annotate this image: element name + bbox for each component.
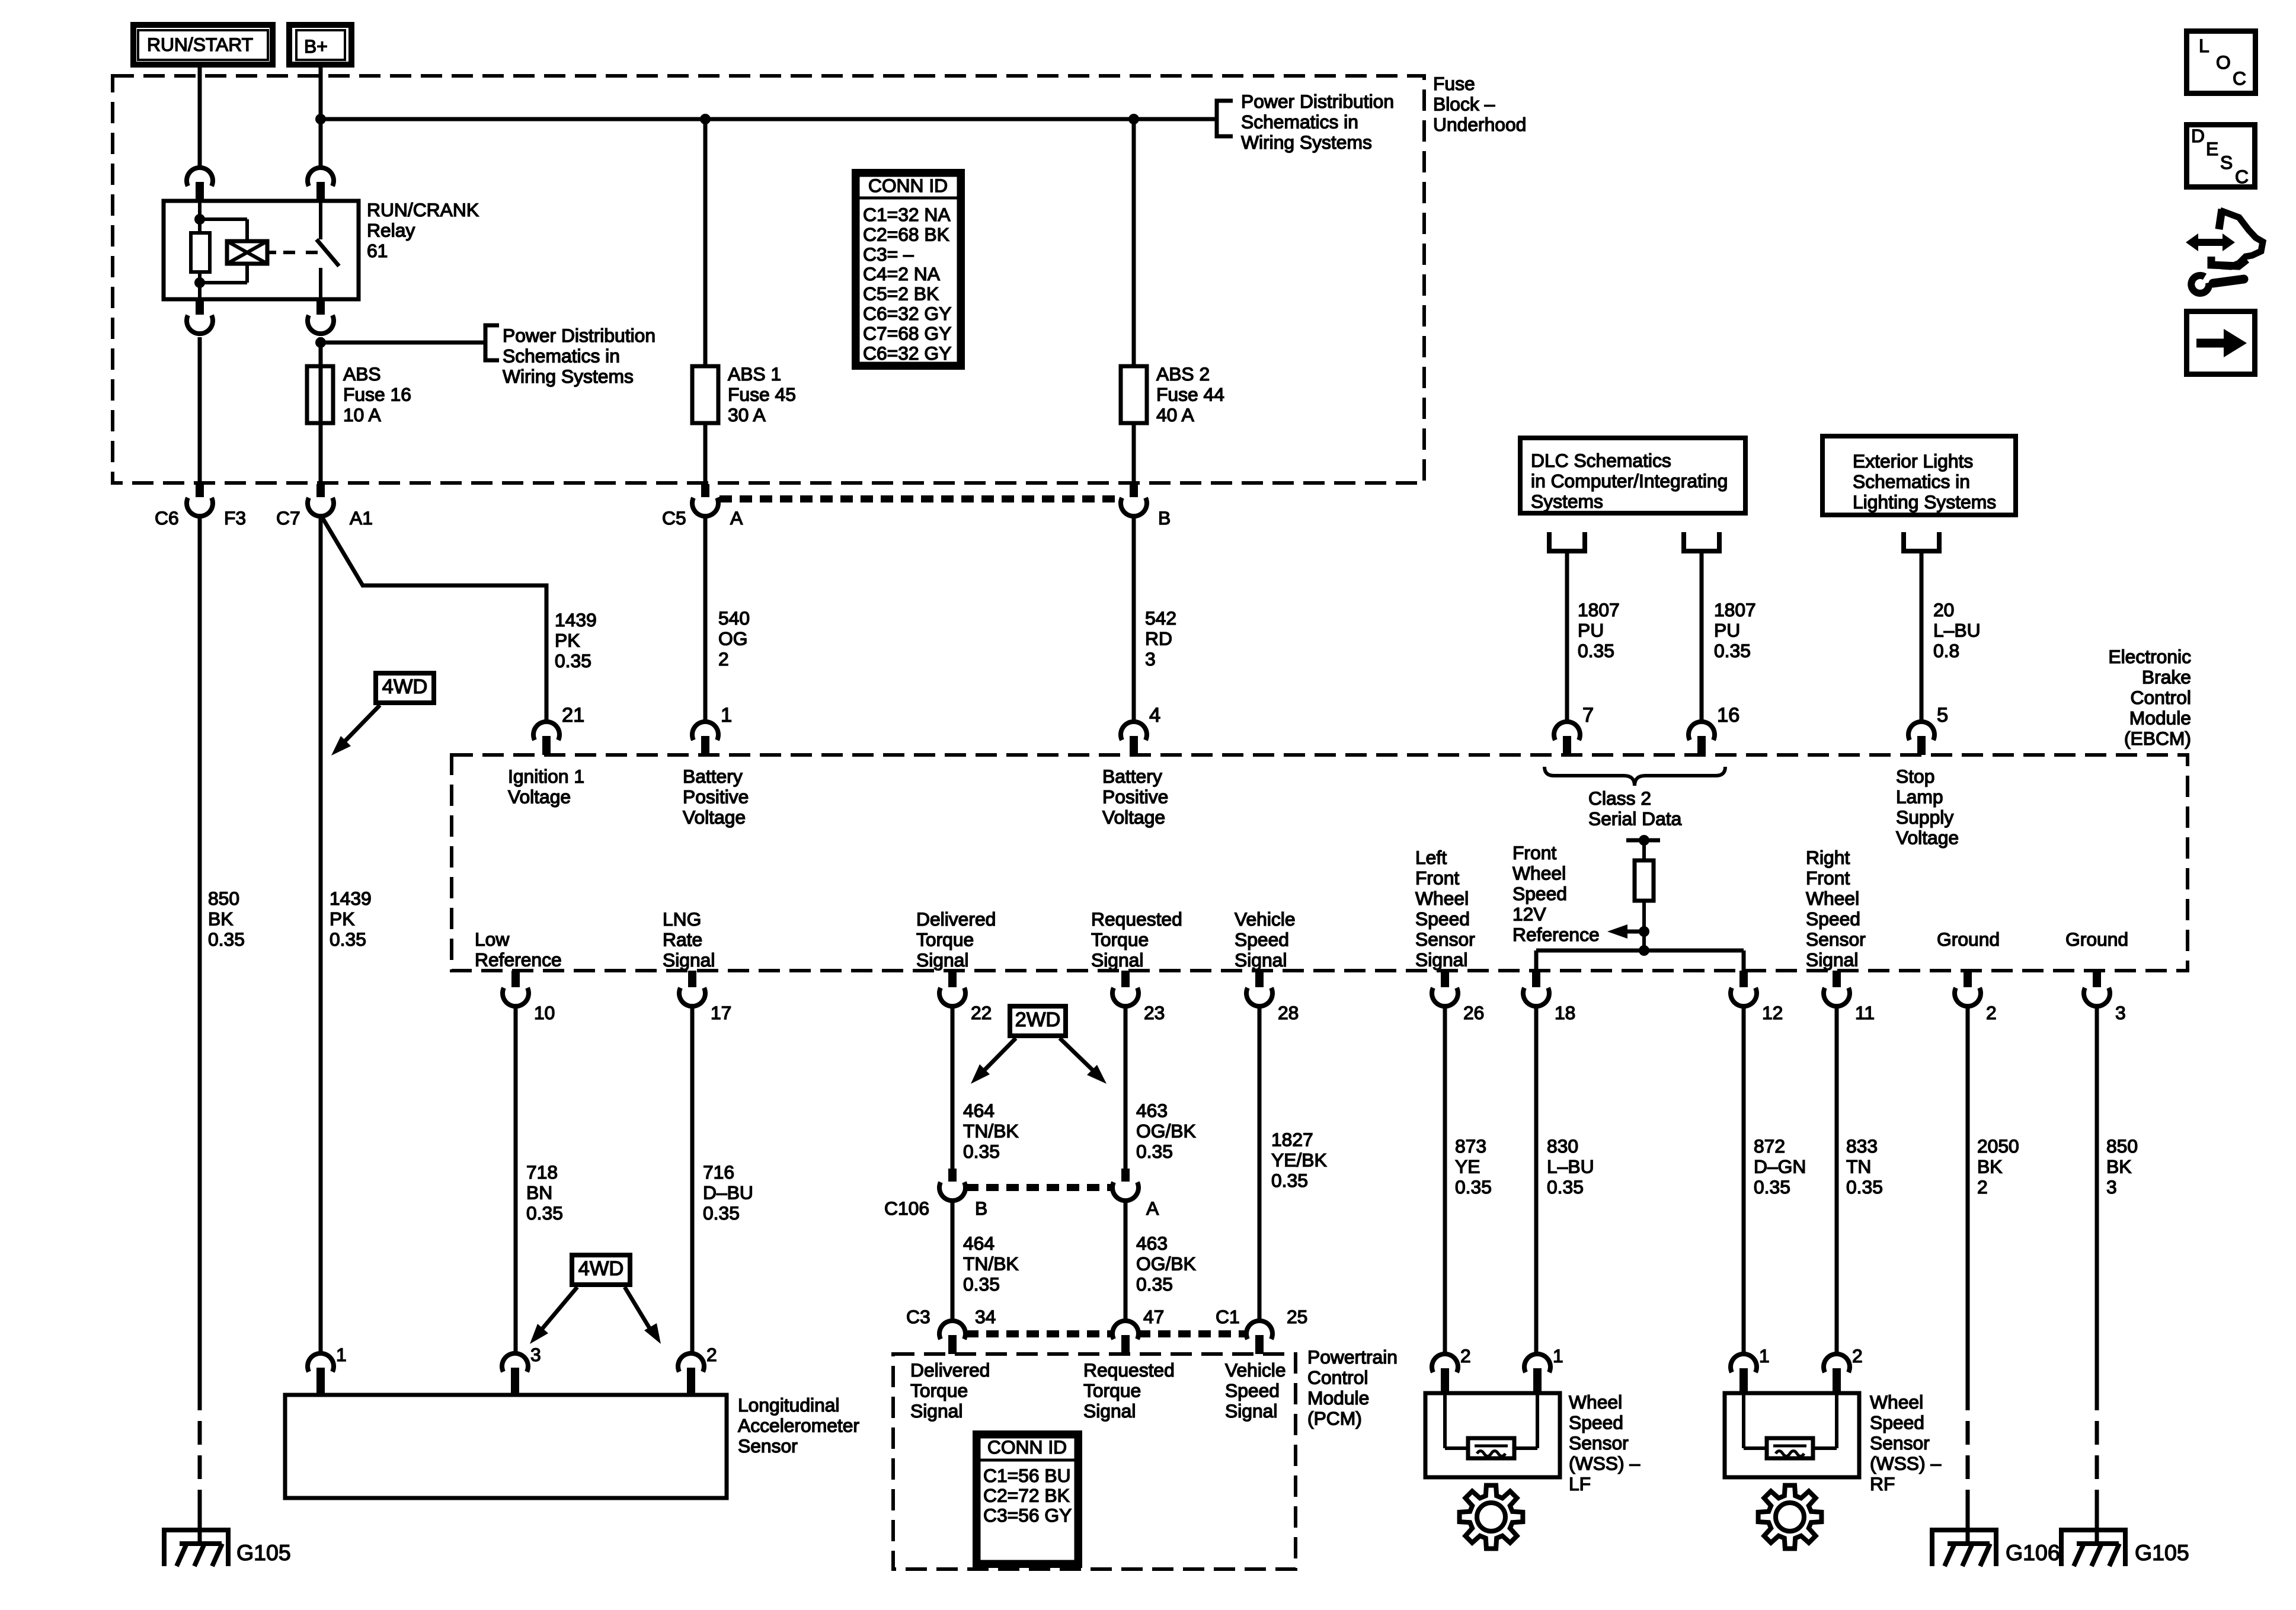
junction dot ABS1 feed bbox=[700, 114, 711, 124]
connector EBCM pin 12 bbox=[1731, 971, 1757, 1006]
svg-text:21: 21 bbox=[562, 704, 584, 726]
wire 2050 BK pin 2 to G106 bbox=[1966, 1006, 1970, 1545]
connector EBCM pin 21 bbox=[533, 722, 559, 755]
junction dot relay coil top bbox=[194, 214, 205, 225]
wire 20 L-BU to pin 5 bbox=[1920, 551, 1924, 722]
connector accelerometer pin 3 bbox=[502, 1353, 528, 1395]
svg-text:22: 22 bbox=[971, 1002, 992, 1023]
svg-text:CONN ID: CONN ID bbox=[987, 1436, 1067, 1458]
svg-text:A1: A1 bbox=[350, 507, 373, 529]
connector relay pin top-left bbox=[187, 168, 213, 201]
wire 1827 YE/BK pin 28 to PCM pin 25 bbox=[1258, 1006, 1262, 1321]
leader arrow 4WD to wire bbox=[331, 705, 380, 756]
svg-text:4WD: 4WD bbox=[578, 1257, 624, 1280]
leader arrow 2WD to 464 wire bbox=[971, 1038, 1016, 1084]
junction dot ABS2 feed bbox=[1128, 114, 1139, 124]
svg-text:1: 1 bbox=[1553, 1345, 1563, 1366]
svg-text:VehicleSpeedSignal: VehicleSpeedSignal bbox=[1225, 1359, 1286, 1422]
wire RUN/START to relay coil bbox=[198, 68, 202, 167]
svg-text:L: L bbox=[2199, 35, 2209, 56]
svg-text:C5=2 BK: C5=2 BK bbox=[863, 283, 939, 305]
svg-text:18: 18 bbox=[1555, 1002, 1575, 1023]
svg-text:G106: G106 bbox=[2006, 1540, 2060, 1565]
connector EBCM pin 4 bbox=[1121, 722, 1147, 755]
svg-text:S: S bbox=[2220, 152, 2233, 173]
connector WSS LF pin 1 bbox=[1524, 1354, 1550, 1393]
svg-text:BatteryPositiveVoltage: BatteryPositiveVoltage bbox=[1102, 766, 1168, 828]
fork connector DLC pin 7 bbox=[1549, 532, 1585, 551]
wire B to EBCM pin 4 bbox=[1132, 516, 1136, 722]
wire reference split to pins 18 and 12 bbox=[1536, 950, 1744, 972]
wire fuse44 to B connector bbox=[1132, 423, 1136, 484]
relay RUN/CRANK Relay 61 box bbox=[164, 201, 359, 299]
svg-text:C1: C1 bbox=[1216, 1306, 1240, 1327]
svg-text:28: 28 bbox=[1278, 1002, 1299, 1023]
wire relay to C6 connector bbox=[198, 337, 202, 484]
power feed tag RUN/START bbox=[133, 25, 273, 65]
svg-text:RUN/START: RUN/START bbox=[147, 34, 253, 55]
wire 833 TN pin 11 to WSS RF pin 2 bbox=[1835, 1006, 1839, 1353]
svg-text:C106: C106 bbox=[884, 1198, 929, 1219]
leader arrow 2WD to 463 wire bbox=[1060, 1038, 1107, 1084]
svg-text:D: D bbox=[2191, 125, 2205, 146]
wire 463 OG/BK pin 23 to C106 A bbox=[1124, 1006, 1128, 1169]
connector relay pin top-right bbox=[308, 168, 334, 201]
svg-text:B: B bbox=[975, 1198, 987, 1219]
leader arrow 4WD to pin10 wire bbox=[530, 1287, 577, 1344]
svg-text:2: 2 bbox=[1986, 1002, 1997, 1023]
svg-text:3: 3 bbox=[2115, 1002, 2126, 1023]
fuse ABS 1 Fuse 45 30 A bbox=[692, 366, 718, 423]
connector PCM pin 47 bbox=[1112, 1321, 1139, 1354]
svg-text:2: 2 bbox=[1852, 1345, 1863, 1366]
wheel speed sensor RF box bbox=[1725, 1393, 1859, 1477]
node class 2 serial data stub bbox=[1626, 835, 1660, 846]
relay actuation dashed link bbox=[283, 251, 318, 254]
svg-text:5: 5 bbox=[1937, 704, 1948, 726]
wire relay to ABS fuse 16 bbox=[319, 337, 323, 367]
connector C6/F3 bbox=[187, 484, 213, 516]
fork connector Exterior Lights bbox=[1904, 532, 1939, 551]
longitudinal accelerometer sensor box bbox=[285, 1395, 727, 1498]
ground G105 (right) bbox=[2061, 1530, 2125, 1566]
connector accelerometer pin 2 bbox=[678, 1353, 704, 1395]
wire fuse45 to C5 connector bbox=[703, 423, 708, 484]
svg-text:7: 7 bbox=[1582, 704, 1594, 726]
svg-text:F3: F3 bbox=[224, 507, 246, 529]
connector C106 A bbox=[1112, 1169, 1139, 1201]
connector EBCM pin 11 bbox=[1824, 971, 1850, 1006]
wire 464 TN/BK pin 22 to C106 B bbox=[951, 1006, 955, 1169]
wire 830 L-BU pin 18 to WSS LF pin 1 bbox=[1534, 1006, 1539, 1353]
wire ABS1 feed down bbox=[703, 119, 708, 367]
inline connector dashed line A to B bbox=[720, 495, 1120, 502]
svg-text:A: A bbox=[1146, 1198, 1159, 1219]
svg-text:4: 4 bbox=[1149, 704, 1160, 726]
brace Class 2 Serial Data bbox=[1544, 767, 1725, 786]
wire 464 TN/BK C106 to PCM C3-34 bbox=[951, 1201, 955, 1321]
svg-text:2: 2 bbox=[706, 1344, 717, 1365]
connector C5/A bbox=[692, 484, 718, 516]
power feed tag B+ bbox=[289, 25, 351, 65]
junction dot reference split bbox=[1639, 945, 1649, 956]
svg-text:C6: C6 bbox=[155, 507, 179, 529]
variant tag 4WD (lower) bbox=[572, 1255, 630, 1285]
svg-text:E: E bbox=[2206, 138, 2218, 159]
svg-text:2WD: 2WD bbox=[1015, 1009, 1061, 1031]
svg-text:4WD: 4WD bbox=[382, 676, 428, 698]
connector EBCM pin 22 bbox=[939, 971, 965, 1006]
connector C7/A1 bbox=[308, 484, 334, 516]
reference box Exterior Lights bbox=[1822, 436, 2016, 515]
svg-text:10: 10 bbox=[534, 1002, 555, 1023]
svg-text:C2=68 BK: C2=68 BK bbox=[863, 223, 949, 245]
svg-text:12: 12 bbox=[1762, 1002, 1783, 1023]
gear icon WSS RF bbox=[1758, 1486, 1822, 1549]
svg-text:C2=72 BK: C2=72 BK bbox=[983, 1484, 1070, 1506]
svg-text:2: 2 bbox=[1460, 1345, 1471, 1366]
svg-text:CONN ID: CONN ID bbox=[868, 175, 948, 196]
leader arrow 12V Reference bbox=[1607, 924, 1644, 939]
resistor class 2 termination bbox=[1635, 840, 1654, 950]
svg-text:C3=56 GY: C3=56 GY bbox=[983, 1505, 1072, 1526]
svg-text:C7=68 GY: C7=68 GY bbox=[863, 322, 951, 344]
svg-text:17: 17 bbox=[711, 1002, 731, 1023]
svg-text:C7: C7 bbox=[276, 507, 300, 529]
connector EBCM pin 1 bbox=[692, 722, 718, 755]
connector relay pin bottom-right bbox=[308, 299, 334, 334]
inline connector dashed line C106 bbox=[966, 1184, 1113, 1191]
wheel speed sensor LF box bbox=[1425, 1393, 1560, 1477]
svg-text:C1=56 BU: C1=56 BU bbox=[983, 1465, 1071, 1486]
reference bracket Power Distribution (left) bbox=[485, 325, 499, 360]
connector EBCM pin 7 bbox=[1554, 722, 1580, 755]
connector relay pin bottom-left bbox=[187, 299, 213, 334]
svg-text:25: 25 bbox=[1287, 1306, 1307, 1327]
inline dashed line 47 to 25 bbox=[1138, 1330, 1247, 1337]
reference box DLC Schematics bbox=[1520, 438, 1745, 513]
connector EBCM pin 18 bbox=[1523, 971, 1549, 1006]
relay switch contact bbox=[316, 201, 339, 299]
connector C106 B bbox=[939, 1169, 965, 1201]
svg-text:C6=32 GY: C6=32 GY bbox=[863, 303, 951, 324]
junction dot B+ bus bbox=[315, 114, 326, 124]
connector EBCM pin 28 bbox=[1246, 971, 1272, 1006]
wire 850 BK from C6 to G105 bbox=[198, 516, 202, 1545]
connector EBCM pin 3 bbox=[2084, 971, 2110, 1006]
svg-text:C1=32 NA: C1=32 NA bbox=[863, 204, 951, 225]
inline dashed line C3 to 47 bbox=[966, 1330, 1113, 1337]
junction dot fuse16 branch bbox=[315, 337, 326, 348]
wire branch to Power Distribution reference (left) bbox=[321, 341, 486, 345]
wire 463 OG/BK C106 to PCM 47 bbox=[1124, 1201, 1128, 1321]
connector WSS RF pin 2 bbox=[1824, 1354, 1850, 1393]
wire 873 YE pin 26 to WSS LF pin 2 bbox=[1443, 1006, 1447, 1353]
leader arrow 4WD to pin17 wire bbox=[625, 1287, 661, 1344]
svg-text:1: 1 bbox=[336, 1344, 347, 1365]
PCM dashed box bbox=[893, 1354, 1296, 1569]
gear icon WSS LF bbox=[1460, 1486, 1523, 1549]
connector EBCM pin 16 bbox=[1689, 722, 1715, 755]
svg-text:VehicleSpeedSignal: VehicleSpeedSignal bbox=[1235, 908, 1296, 971]
svg-text:1: 1 bbox=[1759, 1345, 1770, 1366]
fuse ABS 2 Fuse 44 40 A bbox=[1121, 366, 1147, 423]
svg-text:34: 34 bbox=[975, 1306, 996, 1327]
svg-text:23: 23 bbox=[1144, 1002, 1165, 1023]
svg-text:C: C bbox=[2235, 166, 2249, 187]
ground G106 bbox=[1932, 1530, 1996, 1566]
connector PCM C1 pin 25 bbox=[1246, 1321, 1272, 1354]
svg-text:C: C bbox=[2233, 68, 2246, 89]
wire ABS2 feed down bbox=[1132, 119, 1136, 367]
icon box arrow bbox=[2187, 312, 2255, 375]
CONN ID table (fuse block) bbox=[855, 172, 962, 367]
connector B (fuse block) bbox=[1121, 484, 1147, 516]
svg-text:O: O bbox=[2216, 52, 2231, 73]
svg-text:B+: B+ bbox=[304, 36, 328, 57]
icon wrench with arrows bbox=[2186, 209, 2263, 293]
svg-text:26: 26 bbox=[1463, 1002, 1484, 1023]
wire fuse16 to C7 connector bbox=[319, 423, 323, 484]
svg-text:Ground: Ground bbox=[2065, 929, 2128, 950]
fuse ABS Fuse 16 10 A bbox=[307, 366, 333, 423]
EBCM dashed box bbox=[452, 755, 2188, 971]
connector EBCM pin 17 bbox=[679, 971, 705, 1006]
connector accelerometer pin 1 bbox=[308, 1353, 334, 1395]
wire 716 D-BU pin 17 to accelerometer pin 2 bbox=[690, 1006, 695, 1353]
wire 1439 PK from A1 straight down (4WD) bbox=[319, 516, 323, 1353]
wire 850 BK pin 3 to G105 bbox=[2095, 1006, 2099, 1545]
svg-text:B: B bbox=[1158, 507, 1171, 529]
svg-text:Ground: Ground bbox=[1937, 929, 2000, 950]
fork connector DLC pin 16 bbox=[1684, 532, 1719, 551]
svg-text:C6=32 GY: C6=32 GY bbox=[863, 343, 951, 364]
svg-text:C3: C3 bbox=[906, 1306, 930, 1327]
svg-text:47: 47 bbox=[1143, 1306, 1164, 1327]
icon box DESC bbox=[2187, 125, 2255, 188]
ground G105 (left) bbox=[164, 1530, 228, 1566]
svg-text:11: 11 bbox=[1855, 1002, 1875, 1023]
relay coil resistor bbox=[191, 201, 210, 299]
svg-text:A: A bbox=[730, 507, 743, 529]
fuse block - underhood dashed outline bbox=[113, 76, 1424, 483]
wire 872 D-GN pin 12 to WSS RF pin 1 bbox=[1742, 1006, 1746, 1353]
junction dot relay coil bottom bbox=[194, 277, 205, 288]
variant tag 4WD (upper) bbox=[376, 673, 434, 703]
svg-text:C5: C5 bbox=[662, 507, 686, 529]
connector PCM C3 pin 34 bbox=[939, 1321, 965, 1354]
connector WSS RF pin 1 bbox=[1731, 1354, 1757, 1393]
svg-text:G105: G105 bbox=[2135, 1540, 2189, 1565]
connector EBCM pin 5 bbox=[1908, 722, 1934, 755]
variant tag 2WD bbox=[1010, 1006, 1066, 1036]
svg-text:1: 1 bbox=[721, 704, 732, 726]
svg-text:C4=2 NA: C4=2 NA bbox=[863, 263, 941, 284]
reference bracket Power Distribution (top right) bbox=[1217, 101, 1233, 136]
wire B+ bus to Power Distribution reference bbox=[321, 117, 1219, 121]
connector EBCM pin 10 bbox=[503, 971, 529, 1006]
svg-text:G105: G105 bbox=[236, 1540, 291, 1565]
wire 1439 PK diagonal branch to pin 21 bbox=[322, 517, 546, 722]
wire 718 BN pin 10 to accelerometer pin 3 bbox=[514, 1006, 518, 1353]
connector WSS LF pin 2 bbox=[1432, 1354, 1458, 1393]
wire 1807 PU to pin 16 bbox=[1700, 551, 1704, 722]
connector EBCM pin 2 bbox=[1955, 971, 1981, 1006]
svg-text:BatteryPositiveVoltage: BatteryPositiveVoltage bbox=[683, 766, 749, 828]
relay coil winding box with X bbox=[200, 219, 276, 283]
svg-text:C3= –: C3= – bbox=[863, 244, 914, 265]
svg-text:16: 16 bbox=[1717, 704, 1739, 726]
connector EBCM pin 23 bbox=[1112, 971, 1139, 1006]
svg-text:3: 3 bbox=[530, 1344, 541, 1365]
connector EBCM pin 26 bbox=[1432, 971, 1458, 1006]
wire C5/A to EBCM pin 1 bbox=[703, 516, 708, 722]
icon box LOC bbox=[2187, 31, 2256, 94]
CONN ID table (PCM) bbox=[976, 1433, 1080, 1566]
wire B+ to relay switch bbox=[319, 68, 323, 167]
wire 1807 PU to pin 7 bbox=[1565, 551, 1569, 722]
junction dot 12V reference bbox=[1639, 926, 1649, 937]
